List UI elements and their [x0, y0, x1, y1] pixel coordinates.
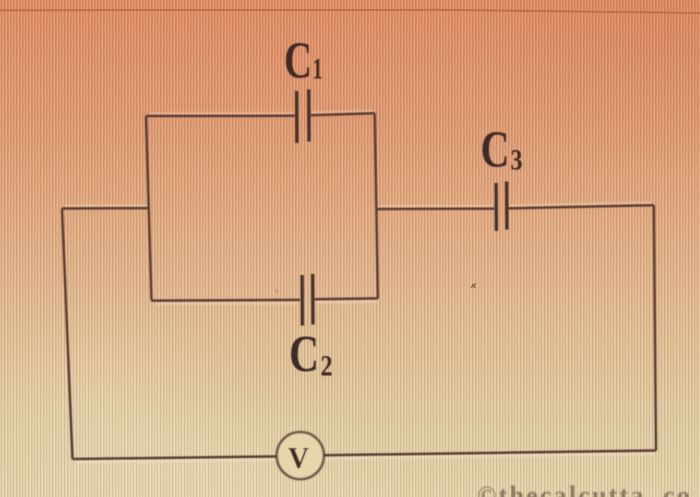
svg-text:3: 3 — [511, 144, 523, 177]
voltmeter V — [277, 432, 324, 479]
svg-text:1: 1 — [313, 53, 323, 86]
capacitor C2 — [302, 274, 313, 326]
wire: outer left vertical — [62, 209, 73, 460]
svg-text:V: V — [288, 440, 310, 475]
wire: middle branch, C3 to outer right — [508, 205, 654, 208]
label C1 — [284, 33, 323, 90]
label C3 — [481, 121, 523, 178]
svg-text:C: C — [481, 121, 510, 178]
wire: inner loop left side — [146, 116, 152, 301]
wire: middle branch, inner loop to C3 — [376, 207, 495, 210]
wire: inner loop right side — [375, 113, 378, 298]
svg-text:C: C — [284, 33, 312, 90]
wire: inner loop bottom edge, right of C2 — [314, 297, 378, 300]
wire: outer right vertical — [654, 205, 656, 450]
wire: inner loop top edge, right of C1 — [310, 113, 374, 115]
label C2 — [289, 326, 333, 383]
svg-text:2: 2 — [321, 350, 333, 383]
svg-text:©thecalcutta. co: ©thecalcutta. co — [477, 481, 692, 497]
capacitor C3 — [496, 182, 507, 232]
wire: inner loop top edge, left of C1 — [146, 115, 295, 118]
wire: outer bottom, left of voltmeter — [73, 456, 278, 459]
wire: inner loop bottom edge, left of C2 — [152, 299, 301, 302]
capacitor C1 — [297, 90, 309, 144]
wire: left branch, outer left to inner loop — [62, 207, 148, 210]
svg-text:C: C — [289, 326, 319, 383]
wire: outer bottom, right of voltmeter — [324, 451, 657, 456]
